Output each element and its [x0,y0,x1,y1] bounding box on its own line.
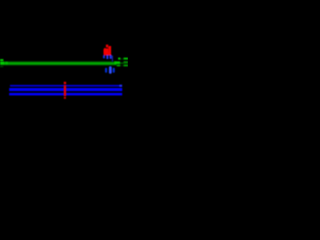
green HUD right bright blob on line [115,61,121,64]
pad bar bottom [9,93,122,96]
rocket red stem bar [109,46,111,55]
pad bar thin top [10,85,122,87]
node A: green line faint tail to right edge [117,62,129,64]
rocket blue flame wisp [112,56,113,62]
exhaust bar tall center [109,66,112,74]
rocket blue flame right [110,55,112,59]
landing pad bars [9,85,122,96]
pad bar thick middle [9,88,122,91]
rocket sprite group [103,45,113,62]
blue exhaust bars below line [105,66,115,74]
green HUD text left upper blob [0,59,3,61]
green HUD faint connector row1 [120,58,124,59]
green HUD faint connector row3 [120,65,124,66]
rocket blue flame mid [106,55,108,59]
exhaust bar small right [113,68,115,73]
rocket red body [104,48,109,55]
green HUD text left lower blob 1 [0,62,4,65]
pad bar thin top end dot [120,85,123,87]
background [0,0,128,128]
green HUD right dash row3b [124,65,128,67]
marker dot top [64,82,66,84]
rocket blue flame left [103,55,105,58]
green HUD right dot [118,58,120,60]
rocket red lower merge [104,52,111,55]
red marker group [64,82,66,99]
green HUD right dash row1 [124,58,128,60]
green HUD faint text below left [0,66,3,67]
rocket red top flag [106,45,108,48]
rocket red pixel [104,48,105,49]
exhaust bar small left [105,68,107,73]
rocket red flag connector [108,47,109,49]
wire: green terrain line [0,62,117,65]
marker dot bottom [64,97,66,99]
marker vertical bar [64,85,66,96]
green HUD right dash row3a [117,65,120,67]
wire: green terrain line soft top edge [0,60,117,63]
green HUD right dash row2 [124,61,128,63]
wire: green terrain line soft bottom edge [0,65,117,66]
green HUD text left lower blob 2 [5,62,8,65]
